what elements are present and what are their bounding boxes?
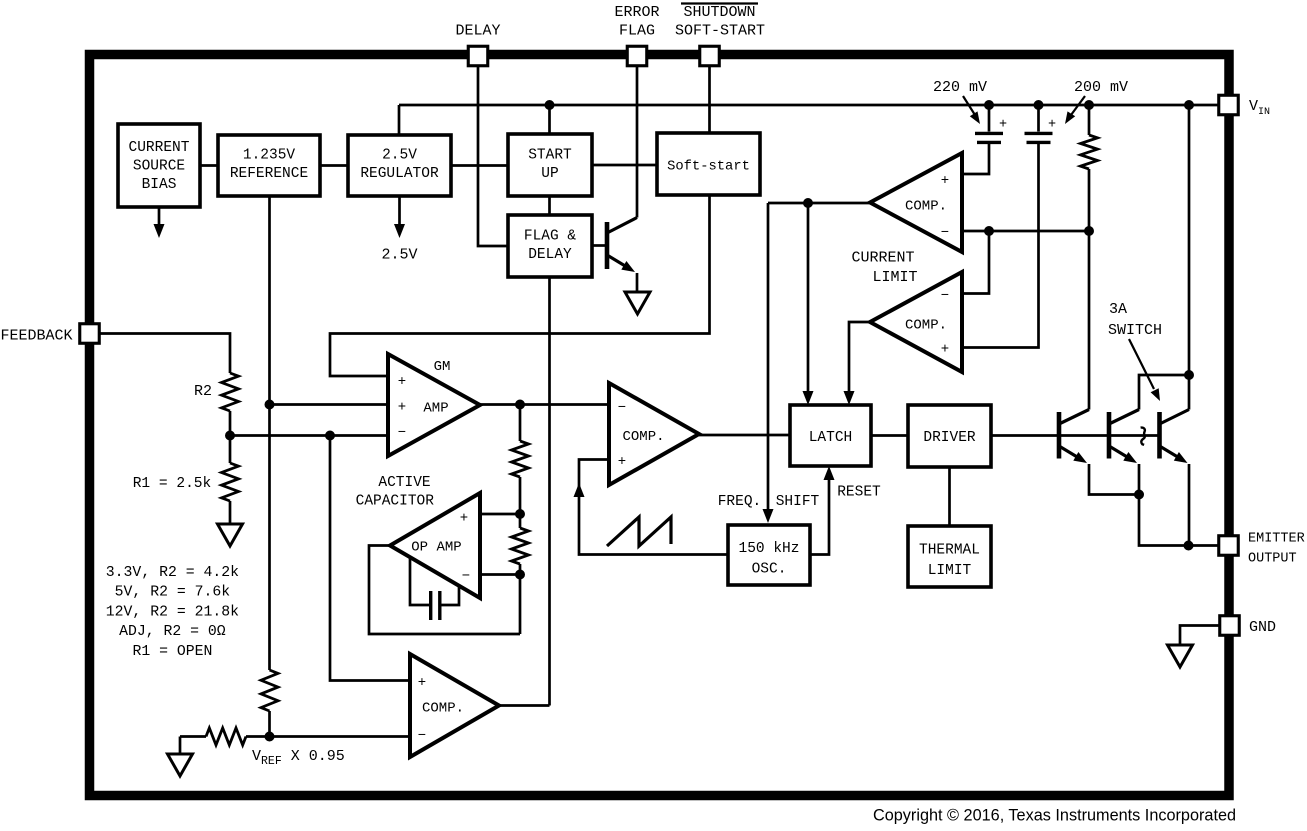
svg-text:12V, R2 = 21.8k: 12V, R2 = 21.8k <box>106 604 239 620</box>
svg-text:R2: R2 <box>194 383 212 400</box>
svg-text:COMP.: COMP. <box>905 318 947 334</box>
svg-text:+: + <box>941 342 949 358</box>
svg-text:2.5V: 2.5V <box>382 148 417 164</box>
svg-text:+: + <box>398 374 406 390</box>
svg-text:−: − <box>941 288 949 304</box>
svg-text:1.235V: 1.235V <box>243 148 296 164</box>
svg-text:LATCH: LATCH <box>809 430 853 446</box>
svg-text:+: + <box>618 454 626 470</box>
svg-text:FEEDBACK: FEEDBACK <box>0 328 72 345</box>
svg-text:ADJ, R2 = 0Ω: ADJ, R2 = 0Ω <box>119 624 226 640</box>
svg-text:RESET: RESET <box>837 485 881 501</box>
svg-text:SHIFT: SHIFT <box>776 494 820 510</box>
svg-text:DRIVER: DRIVER <box>923 430 976 446</box>
svg-text:SOURCE: SOURCE <box>133 159 185 175</box>
svg-text:REGULATOR: REGULATOR <box>360 166 439 182</box>
svg-text:CAPACITOR: CAPACITOR <box>356 494 435 510</box>
svg-text:BIAS: BIAS <box>142 177 177 193</box>
svg-text:OSC.: OSC. <box>752 562 787 578</box>
svg-text:OUTPUT: OUTPUT <box>1248 552 1297 567</box>
svg-text:SOFT-START: SOFT-START <box>675 23 765 40</box>
svg-text:−: − <box>462 569 470 585</box>
svg-text:−: − <box>418 728 426 744</box>
svg-text:ACTIVE: ACTIVE <box>378 475 430 491</box>
svg-text:−: − <box>941 225 949 241</box>
svg-text:DELAY: DELAY <box>528 247 572 263</box>
svg-text:COMP.: COMP. <box>422 701 464 717</box>
svg-text:−: − <box>398 425 406 441</box>
svg-text:THERMAL: THERMAL <box>919 543 980 559</box>
svg-text:+: + <box>1048 118 1056 133</box>
svg-text:REFERENCE: REFERENCE <box>230 166 308 182</box>
svg-text:CURRENT: CURRENT <box>851 250 914 267</box>
svg-text:FLAG &: FLAG & <box>524 229 577 245</box>
svg-text:UP: UP <box>541 166 558 182</box>
svg-text:5V, R2 = 7.6k: 5V, R2 = 7.6k <box>115 585 231 601</box>
svg-text:GM: GM <box>434 359 451 375</box>
svg-text:150 kHz: 150 kHz <box>739 541 800 557</box>
svg-text:OP AMP: OP AMP <box>411 540 461 556</box>
svg-text:R1 = 2.5k: R1 = 2.5k <box>133 476 212 492</box>
svg-text:FREQ.: FREQ. <box>718 494 762 510</box>
svg-text:AMP: AMP <box>423 401 448 417</box>
svg-text:LIMIT: LIMIT <box>928 563 972 579</box>
svg-text:+: + <box>418 675 426 691</box>
svg-text:200 mV: 200 mV <box>1074 79 1128 96</box>
svg-text:+: + <box>999 118 1007 133</box>
svg-text:3A: 3A <box>1109 301 1127 318</box>
svg-text:3.3V, R2 = 4.2k: 3.3V, R2 = 4.2k <box>106 565 239 581</box>
svg-text:START: START <box>528 148 572 164</box>
svg-text:Soft-start: Soft-start <box>667 159 750 175</box>
svg-text:SHUTDOWN: SHUTDOWN <box>683 4 755 21</box>
svg-text:2.5V: 2.5V <box>381 247 417 264</box>
svg-text:−: − <box>618 400 626 416</box>
svg-text:SWITCH: SWITCH <box>1108 322 1162 339</box>
svg-text:FLAG: FLAG <box>619 23 655 40</box>
svg-text:ERROR: ERROR <box>614 4 659 21</box>
svg-text:+: + <box>398 400 406 416</box>
svg-text:DELAY: DELAY <box>455 23 500 40</box>
svg-text:LIMIT: LIMIT <box>872 269 917 286</box>
svg-text:COMP.: COMP. <box>905 199 947 215</box>
svg-text:+: + <box>460 511 468 527</box>
svg-text:R1 = OPEN: R1 = OPEN <box>132 644 212 660</box>
svg-text:COMP.: COMP. <box>622 429 664 445</box>
svg-text:GND: GND <box>1249 619 1276 636</box>
svg-text:220 mV: 220 mV <box>933 79 987 96</box>
svg-text:Copyright © 2016, Texas Instru: Copyright © 2016, Texas Instruments Inco… <box>873 807 1236 825</box>
svg-text:CURRENT: CURRENT <box>129 140 190 156</box>
svg-text:EMITTER: EMITTER <box>1248 532 1305 547</box>
svg-text:+: + <box>941 173 949 189</box>
